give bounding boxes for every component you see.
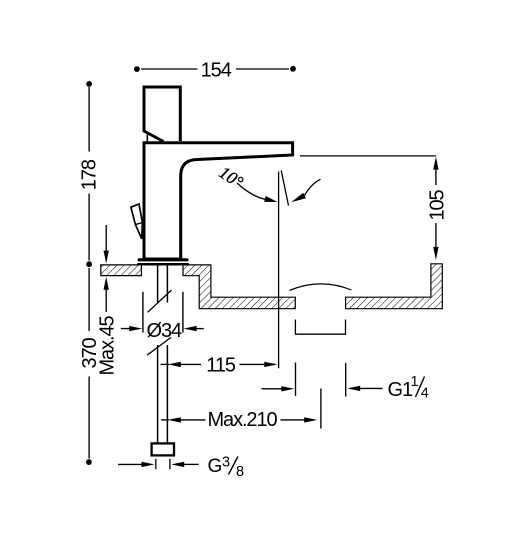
spout axis line [278, 172, 280, 369]
pipe break slash lower [147, 337, 171, 355]
dim Max.45 [97, 225, 119, 376]
svg-text:115: 115 [206, 354, 236, 376]
dim 115 [161, 354, 278, 376]
countertop step and basin bottom left [183, 265, 295, 309]
faucet handle block [143, 87, 180, 142]
dim 154 [134, 59, 296, 81]
svg-text:3: 3 [222, 455, 230, 471]
dim Max.210 [161, 389, 321, 431]
dim 178 [79, 81, 101, 267]
svg-text:Max.45: Max.45 [97, 316, 119, 376]
faucet lever [131, 204, 143, 239]
basin bottom right and right wall [346, 264, 443, 309]
svg-text:8: 8 [236, 464, 244, 480]
dim G3/8 [118, 455, 244, 481]
supply pipes [158, 266, 168, 303]
dim 105 [300, 156, 449, 260]
svg-text:178: 178 [79, 159, 101, 190]
tilted stream axis [281, 171, 288, 206]
flexible hose [158, 345, 168, 443]
dim G1 1/4 [262, 363, 429, 402]
pipe break slash upper [148, 290, 172, 312]
svg-text:1: 1 [411, 374, 419, 390]
basin arc [289, 284, 351, 291]
svg-text:154: 154 [201, 59, 232, 81]
drain socket [295, 320, 345, 335]
angle 10 deg [216, 162, 321, 202]
faucet body and spout [144, 143, 293, 259]
svg-text:105: 105 [427, 189, 449, 220]
svg-text:G: G [208, 456, 222, 477]
dim 370 [79, 268, 101, 465]
base flange [137, 258, 189, 265]
countertop left band [101, 265, 142, 276]
dim Ø34 [121, 292, 204, 342]
svg-text:Max.210: Max.210 [207, 409, 277, 431]
svg-text:Ø34: Ø34 [147, 320, 182, 342]
svg-text:G1: G1 [388, 379, 413, 401]
G3/8 connector [152, 443, 174, 455]
svg-text:4: 4 [421, 386, 429, 402]
